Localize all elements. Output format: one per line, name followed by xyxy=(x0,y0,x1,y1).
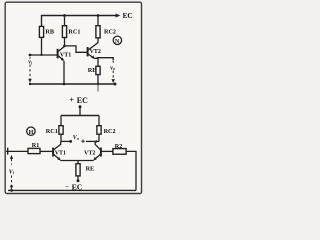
junction node: Vi bottom terminal xyxy=(10,189,13,192)
resistor RC1 (upper circuit collector load of VT1) xyxy=(62,16,80,47)
svg-text:RC1: RC1 xyxy=(68,28,80,35)
svg-text:R1: R1 xyxy=(32,142,40,149)
transistor VT1 (upper circuit) xyxy=(58,47,72,62)
svg-text:H: H xyxy=(29,130,34,136)
wire: VT1 emitter down to bottom rail xyxy=(63,61,65,84)
wire: output stub to vo arrow xyxy=(97,58,113,60)
input voltage Vi (lower circuit, dashed double arrow) xyxy=(9,155,15,190)
node: rail left end xyxy=(29,83,31,85)
input polarity tick (lower circuit) xyxy=(7,148,9,155)
input voltage vi (upper circuit, dashed arrow) xyxy=(28,57,33,83)
svg-text:VT2: VT2 xyxy=(90,49,101,55)
transistor VT2 (lower circuit, mirrored) xyxy=(84,141,101,160)
svg-text:+: + xyxy=(69,96,74,105)
svg-text:VT1: VT1 xyxy=(55,151,66,157)
wire: input base wire of VT1 (upper circuit) xyxy=(30,54,57,56)
svg-text:EC: EC xyxy=(123,12,133,20)
svg-text:R2: R2 xyxy=(115,143,123,150)
wire: right output stub to VT2 collector xyxy=(86,140,99,142)
resistor RC2 (lower circuit) xyxy=(97,116,116,142)
transistor VT1 (lower circuit) xyxy=(53,141,66,160)
resistor RE (lower circuit, shared emitter) xyxy=(76,164,94,180)
svg-text:RB: RB xyxy=(45,29,54,36)
svg-text:−: − xyxy=(65,184,69,191)
node: rail right end at vo xyxy=(114,83,117,86)
svg-text:EC: EC xyxy=(77,96,88,105)
junction node on rail at RC2 xyxy=(97,14,100,17)
node: output terminal (left) xyxy=(69,140,72,143)
transistor VT2 (upper circuit) xyxy=(88,43,101,59)
svg-text:VT2: VT2 xyxy=(84,151,95,157)
node: RE to negative supply xyxy=(77,179,80,182)
marker: circled letter H xyxy=(27,127,35,136)
wire: joined emitters of VT1 and VT2 xyxy=(60,160,93,162)
svg-text:N: N xyxy=(115,39,120,45)
svg-text:VT1: VT1 xyxy=(60,52,71,58)
power label +EC (lower circuit) xyxy=(69,96,88,116)
wire: bottom common rail of lower circuit xyxy=(8,189,136,191)
junction node: VT2 emitter output xyxy=(97,57,99,59)
wire: emitter node down to RE xyxy=(77,161,79,164)
svg-text:Vo: Vo xyxy=(73,135,79,141)
node: upper input terminal xyxy=(29,54,32,57)
junction node on rail at RC1 xyxy=(63,14,66,17)
marker: circled letter N xyxy=(113,36,121,45)
wire: rail corner down to RB top xyxy=(41,15,43,27)
svg-text:RE: RE xyxy=(86,165,95,172)
junction node: RE at rail xyxy=(97,83,100,86)
wire: VT2 base to R2 xyxy=(101,150,113,152)
wire: left output stub from VT1 collector xyxy=(61,140,71,142)
wire: +EC supply rail of lower circuit xyxy=(61,115,99,117)
resistor RC1 (lower circuit) xyxy=(46,116,63,142)
svg-text:RC2: RC2 xyxy=(104,128,116,135)
wire: input lead to R1 xyxy=(6,150,28,152)
resistor RC2 (upper circuit collector load of VT2) xyxy=(96,16,116,43)
power label EC with arrowhead xyxy=(116,12,133,20)
svg-text:Vi: Vi xyxy=(9,169,15,175)
wire: coupling from VT1 collector to VT2 base xyxy=(64,46,87,52)
stray stub below rail xyxy=(97,84,99,92)
power label -EC (lower circuit) xyxy=(65,182,83,191)
wire: top +EC supply rail of upper circuit xyxy=(42,15,118,17)
resistor RE (upper circuit, emitter of VT2) xyxy=(88,66,100,84)
wire: VT2 emitter node to RE and output xyxy=(94,58,98,66)
svg-text:RE: RE xyxy=(88,67,97,74)
junction node: VT2 collector stub xyxy=(95,140,97,142)
svg-text:vo: vo xyxy=(110,65,115,71)
wire: R2 right end down to bottom rail xyxy=(126,151,136,190)
polarity plus sign at right output xyxy=(81,139,85,143)
wire: RB bottom to base node xyxy=(41,37,43,55)
resistor R1 (lower circuit, series input) xyxy=(28,142,40,154)
svg-text:RC1: RC1 xyxy=(46,128,58,135)
junction node: VT1 collector / RC1 xyxy=(63,45,66,48)
wire: bottom common rail of upper circuit xyxy=(30,83,115,85)
wire: R1 to VT1 base xyxy=(40,150,53,152)
output voltage vo (upper circuit, dashed arrow) xyxy=(110,60,115,83)
resistor R2 (lower circuit, VT2 base to common) xyxy=(113,143,126,154)
junction node: VT1 emitter at rail xyxy=(63,83,66,86)
svg-text:RC2: RC2 xyxy=(104,28,116,35)
junction node: RB at base wire xyxy=(40,54,42,56)
resistor RB (upper circuit, base bias) xyxy=(39,26,54,37)
